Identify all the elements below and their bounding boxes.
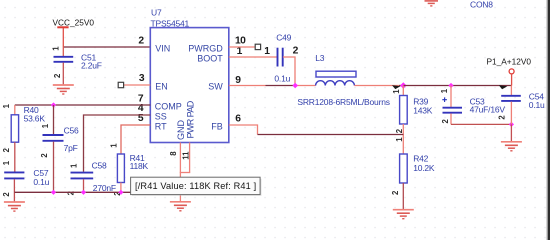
capacitor C57 0.1u (2, 160, 50, 196)
pin number 11 (PWR PAD) rotated (182, 151, 191, 160)
wire ground stub below C57 (13, 192, 15, 201)
op-amp U1 style IC body: regulator U7 TPS54541 (150, 7, 229, 142)
svg-text:1: 1 (264, 46, 270, 57)
svg-text:1: 1 (395, 137, 404, 142)
svg-text:[/R41 Value: 118K Ref: R41 ]: [/R41 Value: 118K Ref: R41 ] (135, 181, 256, 191)
resistor R42 10.2K (391, 137, 435, 210)
partial ground symbol at top edge (425, 1, 439, 6)
svg-text:0.1u: 0.1u (529, 100, 545, 110)
svg-text:47uF/16V: 47uF/16V (470, 104, 506, 114)
capacitor C56 7pF (40, 123, 79, 192)
svg-text:BOOT: BOOT (197, 54, 223, 64)
svg-text:U7: U7 (151, 7, 162, 17)
svg-text:2: 2 (2, 147, 11, 152)
window edge bar at right (547, 0, 550, 240)
svg-text:SW: SW (208, 81, 223, 91)
svg-text:1: 1 (2, 103, 11, 108)
ground at C57 / rail left end (4, 202, 25, 211)
wire GND / PWR PAD pins 8 and 11 (180, 143, 190, 202)
svg-text:C49: C49 (276, 32, 291, 42)
svg-text:53.6K: 53.6K (24, 113, 46, 123)
wire C53 bottom to ground node (451, 123, 511, 125)
resistor R39 143K (392, 86, 433, 134)
svg-text:2: 2 (293, 45, 299, 56)
capacitor C54 0.1u (498, 86, 545, 125)
power port P1_A+12V0 (487, 57, 532, 86)
pin number 10 (PWRGD) (235, 36, 246, 47)
svg-text:C58: C58 (92, 161, 107, 171)
wire COMP net to R40 (15, 104, 151, 106)
wire PWRGD pin stub (229, 46, 255, 48)
svg-text:1: 1 (69, 163, 78, 168)
svg-text:L3: L3 (315, 53, 325, 63)
svg-text:2: 2 (40, 153, 49, 158)
no-ERC marker on EN (118, 82, 123, 87)
svg-text:1: 1 (109, 143, 118, 148)
svg-text:2: 2 (441, 119, 450, 124)
svg-text:7pF: 7pF (64, 143, 78, 153)
svg-text:2: 2 (395, 128, 404, 133)
svg-text:1: 1 (440, 88, 449, 93)
ground at R42 (393, 210, 414, 219)
second cursor-like arrow near C54 corner (499, 85, 508, 89)
svg-text:COMP: COMP (155, 101, 182, 111)
svg-text:FB: FB (211, 121, 223, 131)
svg-text:10.2K: 10.2K (413, 163, 435, 173)
svg-text:P1_A+12V0: P1_A+12V0 (487, 57, 532, 67)
pin number 9 (SW) (235, 75, 241, 86)
svg-text:1: 1 (52, 46, 61, 51)
wire SW net: pin 9 to L3 (229, 85, 316, 87)
svg-text:2: 2 (138, 36, 144, 47)
svg-text:118K: 118K (130, 161, 149, 171)
pin number 8 (GND) rotated (169, 151, 178, 156)
svg-text:270nF: 270nF (93, 183, 116, 193)
svg-text:C56: C56 (64, 126, 79, 136)
svg-text:EN: EN (155, 82, 168, 92)
capacitor C51 2.2uF (52, 46, 102, 85)
svg-text:VCC_25V0: VCC_25V0 (53, 18, 95, 28)
svg-text:PWR PAD: PWR PAD (186, 100, 196, 138)
wire EN pin stub (124, 84, 151, 86)
junction at C56 top (51, 102, 56, 107)
junction at R41 bottom (118, 190, 123, 195)
svg-text:SS: SS (155, 111, 167, 121)
resistor R40 53.6K (2, 103, 45, 171)
svg-text:0.1u: 0.1u (274, 74, 290, 84)
pin number 5 (RT) (138, 113, 144, 124)
junction at C56 bottom (51, 190, 56, 195)
ground at IC thermal pad (170, 202, 191, 211)
pin number 2 (VIN) (138, 36, 144, 47)
junction at C58 bottom (81, 190, 86, 195)
capacitor C58 270nF (66, 161, 116, 196)
pin number 7 (COMP) (138, 93, 144, 104)
svg-text:CON8: CON8 (470, 0, 493, 10)
tooltip for R41 (131, 177, 262, 196)
ground at C51 (53, 85, 74, 94)
svg-text:9: 9 (235, 75, 241, 86)
svg-text:8: 8 (169, 151, 178, 156)
wire L3 to +12V node (354, 85, 403, 87)
connector designator CON8 (470, 0, 493, 10)
wire C49 pin2 down to SW node (283, 57, 295, 86)
pin number 3 (EN) (139, 73, 145, 84)
power port VCC_25V0 (53, 18, 95, 47)
svg-text:143K: 143K (413, 105, 433, 115)
svg-text:1: 1 (2, 160, 11, 165)
wire SS net to C58 (84, 115, 151, 172)
inductor L3 SRR1208-6R5ML/Bourns (297, 53, 389, 107)
svg-text:VIN: VIN (155, 44, 170, 54)
svg-text:6: 6 (235, 113, 241, 124)
no-ERC marker on PWRGD (255, 44, 260, 49)
svg-text:2: 2 (391, 190, 400, 195)
capacitor C49 0.1u (264, 32, 298, 83)
wire BOOT to C49 (229, 56, 277, 58)
svg-text:2: 2 (498, 115, 507, 120)
wire FB net (229, 125, 403, 135)
svg-text:3: 3 (139, 73, 145, 84)
capacitor C53 47uF/16V polarized (440, 86, 506, 125)
ground at C53/C54 (501, 142, 522, 151)
wire C56 top from COMP junction (53, 105, 55, 134)
mouse cursor arrow at junction (392, 85, 401, 89)
svg-text:2: 2 (2, 192, 11, 197)
wire +12V rail to C53/C54 (403, 85, 511, 87)
svg-text:RT: RT (155, 121, 167, 131)
junction at C49/SW node (292, 83, 298, 89)
wire R39 to R42 with FB tap (402, 124, 404, 154)
resistor R41 118K (109, 143, 148, 196)
junction at C54 bottom (509, 122, 514, 127)
wire bottom ground rail (14, 191, 180, 193)
svg-text:PWRGD: PWRGD (188, 44, 223, 54)
svg-text:SRR1208-6R5ML/Bourns: SRR1208-6R5ML/Bourns (297, 97, 389, 107)
pin number 1 (BOOT) (237, 46, 243, 57)
wire RT net to R41 (121, 125, 150, 154)
svg-text:2.2uF: 2.2uF (81, 61, 102, 71)
junction at R39 / +12V rail (400, 82, 406, 88)
svg-text:2: 2 (53, 73, 62, 78)
wire VIN net from VCC to pin 2 (63, 46, 150, 48)
svg-text:1: 1 (392, 89, 401, 94)
svg-text:1: 1 (41, 123, 50, 128)
pin number 6 (FB) (235, 113, 241, 124)
junction at C53 top (448, 83, 453, 88)
wire ground drop at C53/C54 (510, 124, 512, 141)
svg-text:0.1u: 0.1u (33, 177, 49, 187)
pin number 4 (SS) (138, 103, 144, 114)
